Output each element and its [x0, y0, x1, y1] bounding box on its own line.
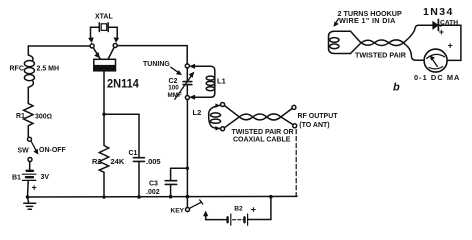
svg-text:RFC: RFC [10, 66, 24, 73]
svg-text:1N34: 1N34 [423, 6, 454, 18]
svg-text:(TO ANT): (TO ANT) [299, 122, 329, 129]
svg-text:COAXIAL CABLE: COAXIAL CABLE [233, 136, 291, 143]
svg-text:+: + [439, 27, 444, 37]
svg-text:B1: B1 [12, 175, 21, 182]
svg-text:XTAL: XTAL [95, 13, 113, 20]
svg-text:b: b [393, 82, 400, 94]
svg-text:ON-OFF: ON-OFF [39, 147, 67, 154]
svg-text:SW: SW [18, 147, 30, 154]
svg-text:R1: R1 [16, 113, 25, 120]
svg-text:R2: R2 [92, 157, 102, 166]
svg-text:C3: C3 [149, 181, 158, 188]
svg-text:.005: .005 [146, 157, 161, 166]
svg-text:L1: L1 [217, 77, 226, 86]
svg-text:TWISTED PAIR OR: TWISTED PAIR OR [232, 129, 294, 136]
svg-text:+: + [251, 204, 256, 214]
svg-text:+: + [448, 41, 453, 51]
svg-text:C1: C1 [129, 150, 138, 157]
svg-text:24K: 24K [111, 157, 125, 166]
svg-text:2N114: 2N114 [107, 78, 139, 90]
svg-text:2.5 MH: 2.5 MH [37, 66, 60, 73]
svg-text:MMF: MMF [168, 92, 182, 99]
svg-text:TUNING: TUNING [143, 61, 170, 68]
svg-text:3V: 3V [41, 174, 50, 181]
svg-text:RF OUTPUT: RF OUTPUT [298, 113, 339, 120]
svg-text:WIRE 1" IN DIA: WIRE 1" IN DIA [339, 16, 396, 25]
svg-text:300Ω: 300Ω [35, 114, 52, 121]
svg-text:+: + [32, 183, 37, 193]
svg-text:B2: B2 [234, 205, 243, 212]
svg-text:CATH: CATH [440, 20, 458, 27]
svg-text:100: 100 [168, 85, 179, 92]
svg-text:L2: L2 [193, 108, 202, 117]
svg-text:0-1 DC MA: 0-1 DC MA [414, 73, 460, 82]
svg-text:.002: .002 [146, 189, 160, 196]
svg-text:KEY: KEY [171, 208, 185, 215]
svg-text:TWISTED PAIR: TWISTED PAIR [355, 51, 407, 60]
